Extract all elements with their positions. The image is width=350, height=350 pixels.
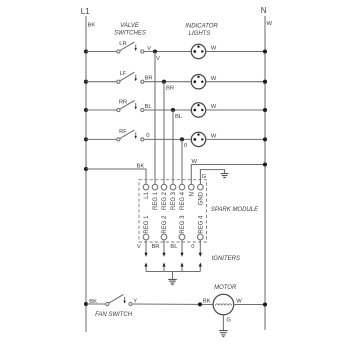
svg-text:RF: RF [119,129,127,135]
svg-text:LF: LF [120,71,127,77]
wire N terminal to right bus (W) [191,162,267,184]
indicator light 4 [191,132,205,146]
svg-text:LIGHTS: LIGHTS [189,31,211,37]
indicator light 1 [191,44,205,58]
terminal REG 4 bottom [197,215,204,240]
terminal REG 4 top [179,184,186,210]
svg-text:MOTOR: MOTOR [214,285,237,291]
terminal REG 3 bottom [179,215,186,240]
svg-text:REG 1: REG 1 [153,191,159,210]
svg-text:BL: BL [145,104,153,110]
igniter electrode 1 [144,263,147,272]
label BL on drop [175,114,183,120]
label W right bus [267,21,273,27]
wire BL drop [172,110,174,184]
svg-text:N: N [261,6,267,15]
label FAN SWITCH [95,312,133,318]
wire light1 to right bus [206,49,267,53]
svg-text:0: 0 [146,133,149,139]
svg-text:V: V [156,56,160,62]
terminal REG 1 top [152,184,159,210]
svg-text:V: V [137,244,141,250]
svg-text:L1: L1 [144,191,150,198]
svg-text:W: W [192,159,198,165]
svg-text:W: W [267,21,273,27]
svg-text:W: W [211,134,217,140]
svg-text:LR: LR [119,41,126,47]
svg-text:GND: GND [198,191,204,205]
wire switch to light row1, junction at V drop [144,49,191,53]
svg-text:SWITCHES: SWITCHES [114,31,146,37]
label G motor [226,318,231,324]
igniter wire 1 (V) [137,240,148,257]
svg-text:BK: BK [88,23,96,29]
fan switch S1 [106,295,132,306]
wire bus to switch RF [84,137,117,141]
wire light4 to right bus [206,137,267,141]
label BK left bus [88,23,96,29]
label SPARK MODULE [211,207,259,213]
wire igniter ground stem [172,272,174,280]
wire V drop [154,52,156,185]
label V after switch [147,46,151,52]
wire bus to switch LR [84,49,117,53]
svg-text:BK: BK [203,298,211,304]
wire light3 to right bus [206,108,267,112]
spark module box [139,180,207,242]
label BK motor [203,298,211,304]
label W light 2 [211,76,217,82]
svg-text:BK: BK [137,163,145,169]
terminal L1 top [143,184,150,198]
label BR on drop [166,86,174,92]
wire fan switch to motor [132,302,213,306]
label O after switch [146,133,149,139]
svg-text:G: G [202,174,207,180]
svg-text:REG 1: REG 1 [144,215,150,234]
svg-text:BL: BL [175,114,183,120]
motor M1 [213,294,234,315]
wire BK feed [84,167,146,184]
svg-text:G: G [226,318,231,324]
svg-text:BL: BL [170,244,178,250]
igniter electrode 4 [199,263,202,272]
wire bus to switch LF [84,80,117,84]
svg-text:RR: RR [119,100,127,106]
label W light 1 [211,46,217,52]
wire motor ground stem [222,315,224,331]
ground motor [219,331,228,337]
label G spark [202,174,207,180]
wire light2 to right bus [206,80,267,84]
valve switch LF [117,71,144,83]
label MOTOR [214,285,237,291]
terminal REG 1 bottom [143,215,150,240]
ground spark module [221,174,229,178]
svg-text:0: 0 [191,244,194,250]
label Y fan [133,299,137,305]
valve switch LR [117,41,144,53]
label O on drop [184,143,187,149]
wire BR drop [163,82,165,185]
wire switch to light row4, junction at O drop [144,137,191,141]
svg-text:BR: BR [145,76,153,82]
svg-text:W: W [236,298,242,304]
svg-text:BR: BR [151,244,159,250]
label BL after switch [145,104,153,110]
label W on N wire [192,159,198,165]
label W light 4 [211,134,217,140]
label BK feed [137,163,145,169]
wire igniter common bus [146,271,200,273]
label VALVE SWITCHES [114,23,146,37]
wire motor to right bus [234,302,267,306]
label INDICATOR LIGHTS [185,24,218,38]
svg-text:BR: BR [166,86,174,92]
node N [261,6,267,15]
terminal GND top [198,184,205,205]
svg-text:REG 3: REG 3 [171,191,177,210]
svg-text:REG 2: REG 2 [162,191,168,210]
valve switch RR [117,100,144,112]
label W light 3 [211,104,217,110]
svg-text:N: N [189,192,195,196]
label IGNITERS [212,256,240,262]
igniter wire 3 (BL) [170,240,183,257]
igniter wire 2 (BR) [151,240,165,257]
wire right bus [264,16,266,330]
svg-text:SPARK MODULE: SPARK MODULE [211,207,259,213]
svg-text:REG 2: REG 2 [162,215,168,234]
svg-text:L1: L1 [81,7,90,16]
svg-text:REG 3: REG 3 [180,215,186,234]
svg-text:VALVE: VALVE [120,23,140,29]
svg-text:0: 0 [184,143,187,149]
indicator light 2 [191,75,205,89]
terminal REG 3 top [170,184,177,210]
svg-text:W: W [211,46,217,52]
ground igniters [168,279,177,284]
label BK fan [89,299,97,305]
label W motor [236,298,242,304]
svg-text:W: W [211,76,217,82]
svg-text:IGNITERS: IGNITERS [212,256,240,262]
igniter electrode 3 [180,263,183,272]
svg-text:W: W [211,104,217,110]
terminal REG 2 top [161,184,168,210]
wire left bus [85,16,87,332]
label BR after switch [145,76,153,82]
svg-text:REG 4: REG 4 [180,191,186,210]
igniter wire 4 (O) [191,240,202,257]
terminal REG 2 bottom [161,215,168,240]
terminal N top [189,184,196,196]
wire O drop [181,139,183,184]
node L1 [81,7,90,16]
svg-text:FAN SWITCH: FAN SWITCH [95,312,133,318]
valve switch RF [117,129,144,141]
wire switch to light row2, junction at BR drop [144,80,191,84]
wire GND terminal to chassis ground [200,170,224,185]
wire switch to light row3, junction at BL drop [144,108,191,112]
wire bus to fan switch [84,302,106,306]
label V on drop [156,56,160,62]
wire bus to switch RR [84,108,117,112]
svg-text:INDICATOR: INDICATOR [185,24,218,30]
indicator light 3 [191,103,205,117]
igniter electrode 2 [162,263,165,272]
svg-text:REG 4: REG 4 [198,215,204,234]
